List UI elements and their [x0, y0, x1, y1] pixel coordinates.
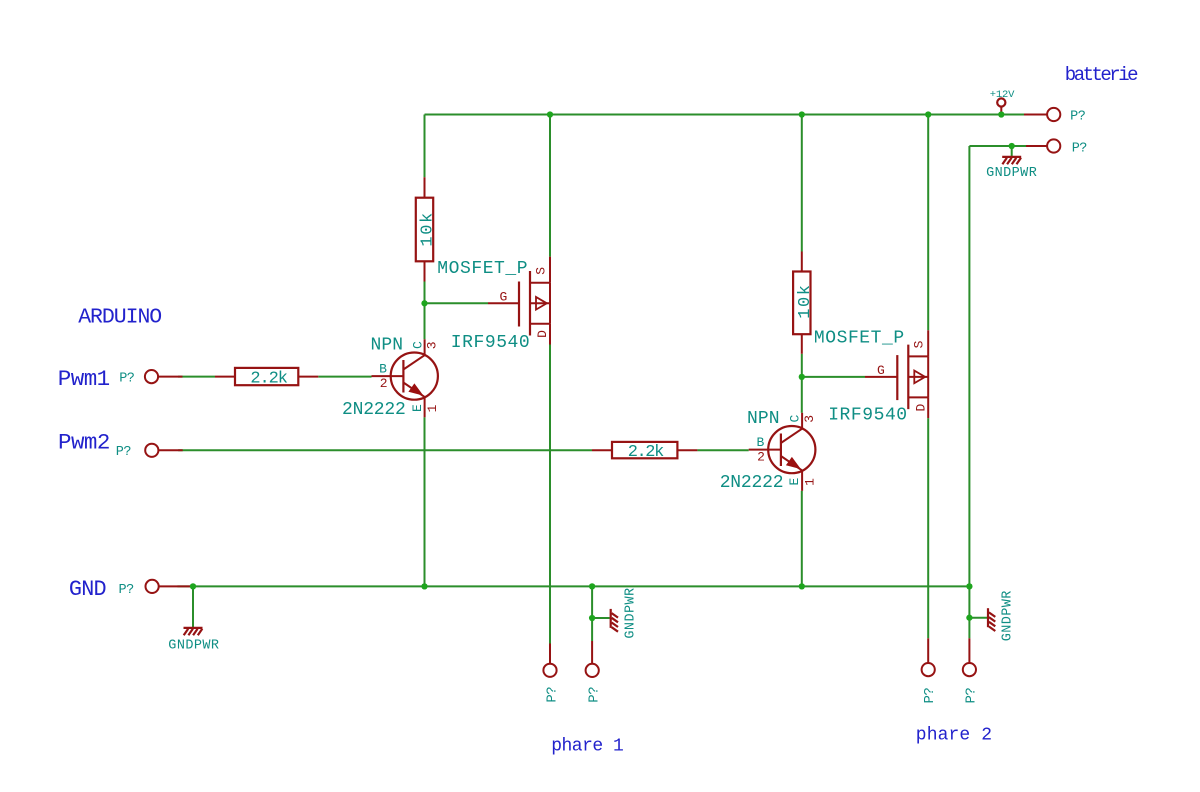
ground GNDPWR arduino label: [168, 639, 219, 654]
svg-text:P?: P?: [544, 687, 560, 703]
svg-text:1: 1: [802, 478, 817, 486]
junction phare1 gnd node: [589, 615, 595, 621]
svg-text:D: D: [914, 404, 929, 412]
wire gate node to M1 gate: [425, 302, 489, 304]
transistor Q2 pin name E: [787, 478, 802, 486]
connector P? phare2 lamp ref: [922, 688, 938, 704]
svg-text:B: B: [379, 362, 387, 377]
svg-text:2N2222: 2N2222: [342, 400, 406, 420]
svg-text:10k: 10k: [796, 283, 815, 318]
mosfet M2 pin name D: [914, 404, 929, 412]
transistor Q1 pin number 2: [380, 376, 388, 391]
wire phare1 GNDPWR stub: [592, 617, 610, 619]
svg-text:2: 2: [757, 449, 765, 464]
wire rail to M1 source: [549, 115, 551, 257]
junction top rail M2 source: [925, 111, 931, 117]
junction top rail +12V: [998, 111, 1004, 117]
resistor R2 value 10k: [796, 283, 815, 318]
svg-text:GNDPWR: GNDPWR: [1000, 590, 1015, 641]
svg-text:GND: GND: [69, 577, 106, 602]
connector P? Pwm2: [145, 444, 183, 457]
mosfet M1 ref IRF9540: [451, 333, 530, 353]
svg-text:2: 2: [380, 376, 388, 391]
net label GND: [69, 577, 106, 602]
resistor R1 pin 1: [424, 177, 426, 198]
svg-text:NPN: NPN: [747, 409, 780, 429]
junction GND rail battery return: [966, 583, 972, 589]
mosfet M1 pin name G: [500, 290, 508, 305]
resistor R4 value 2.2k: [628, 443, 664, 462]
resistor R1 10k body: [416, 198, 433, 262]
junction GND rail arduino: [190, 583, 196, 589]
wire M2 drain to phare2 pin: [927, 418, 929, 638]
svg-text:IRF9540: IRF9540: [828, 406, 907, 426]
svg-text:G: G: [500, 290, 508, 305]
resistor R1 value 10k: [419, 211, 438, 246]
svg-text:3: 3: [425, 341, 440, 349]
wire phare1 ground drop: [591, 586, 593, 641]
mosfet M1 pin name D: [535, 330, 550, 338]
svg-text:1: 1: [425, 404, 440, 412]
wire ARDUINO GNDPWR stem: [192, 586, 194, 627]
connector P? phare2 gnd: [963, 638, 976, 676]
wire phare2 GNDPWR stub: [969, 617, 987, 619]
svg-text:GNDPWR: GNDPWR: [986, 166, 1037, 181]
transistor Q1 pin name B: [379, 362, 387, 377]
transistor Q2 ref 2N2222: [720, 473, 784, 493]
connector P? GND: [146, 580, 194, 593]
ground GNDPWR phare1: [611, 609, 618, 632]
mosfet M2 IRF9540: [865, 330, 928, 418]
svg-text:E: E: [410, 404, 425, 412]
transistor Q1 ref 2N2222: [342, 400, 406, 420]
svg-text:GNDPWR: GNDPWR: [624, 587, 639, 638]
resistor R2 pin 2: [801, 334, 803, 354]
svg-text:S: S: [912, 340, 927, 348]
resistor R4 2.2k body: [612, 442, 677, 458]
svg-text:phare 1: phare 1: [551, 737, 623, 757]
mosfet M2 value MOSFET_P: [814, 328, 905, 348]
connector P? phare2 lamp: [922, 638, 935, 676]
svg-text:B: B: [757, 435, 765, 450]
connector P? battery plus ref: [1070, 110, 1086, 125]
svg-text:IRF9540: IRF9540: [451, 333, 530, 353]
wire battery negative horizontal: [969, 145, 1026, 147]
junction GND rail Q1 emitter: [421, 583, 427, 589]
transistor Q2 pin number 3: [802, 415, 817, 423]
wire phare2 ground drop: [968, 618, 970, 639]
wire Pwm2 segment b: [697, 449, 748, 451]
connector P? phare1 gnd: [586, 641, 599, 677]
resistor R4 pin 2: [677, 449, 697, 451]
ground GNDPWR phare2: [988, 608, 995, 631]
svg-text:ARDUINO: ARDUINO: [78, 306, 161, 330]
connector P? phare1 lamp: [543, 644, 556, 677]
transistor Q1 pin number 3: [425, 341, 440, 349]
mosfet M2 ref IRF9540: [828, 406, 907, 426]
mosfet M2 pin name G: [877, 363, 885, 378]
wire Pwm1 segment b: [318, 376, 371, 378]
net label ARDUINO: [78, 306, 161, 330]
transistor Q2 pin name B: [757, 435, 765, 450]
svg-text:2N2222: 2N2222: [720, 473, 784, 493]
junction phare2 gnd node: [966, 615, 972, 621]
transistor Q2 2N2222: [749, 413, 816, 491]
ground GNDPWR phare1 label: [624, 587, 639, 638]
ground GNDPWR phare2 label: [1000, 590, 1015, 641]
svg-text:P?: P?: [119, 583, 135, 598]
wire rail to M2 source: [927, 115, 929, 331]
net label phare 2: [916, 725, 992, 745]
wire gate node 2 to M2 gate: [802, 376, 865, 378]
svg-text:P?: P?: [116, 445, 132, 460]
svg-text:GNDPWR: GNDPWR: [168, 639, 219, 654]
svg-text:+12V: +12V: [990, 89, 1015, 101]
power symbol +12V: [997, 98, 1005, 114]
mosfet M1 IRF9540: [488, 257, 550, 345]
transistor Q1 pin name C: [410, 341, 425, 349]
svg-text:MOSFET_P: MOSFET_P: [437, 259, 528, 279]
junction battery minus: [1009, 143, 1015, 149]
junction GND rail Q2 emitter: [799, 583, 805, 589]
net label Pwm2: [58, 430, 110, 456]
resistor R2 pin 1: [801, 252, 803, 272]
svg-text:C: C: [410, 341, 425, 349]
wire rail to R1 top: [424, 115, 426, 178]
resistor R1 pin 2: [424, 261, 426, 281]
connector P? Pwm2 ref: [116, 445, 132, 460]
svg-text:P?: P?: [119, 371, 135, 386]
transistor Q2 pin number 2: [757, 449, 765, 464]
wire battery GNDPWR stem: [1011, 146, 1013, 156]
ground GNDPWR battery: [1002, 157, 1021, 164]
svg-text:P?: P?: [1070, 110, 1086, 125]
transistor Q1 2N2222: [372, 339, 438, 417]
svg-text:2.2k: 2.2k: [628, 443, 664, 462]
svg-text:10k: 10k: [419, 211, 438, 246]
wire R1 bottom to Q1 collector (through gate node): [424, 282, 426, 340]
ground GNDPWR arduino: [184, 628, 203, 635]
svg-text:D: D: [535, 330, 550, 338]
mosfet M2 pin name S: [912, 340, 927, 348]
wire Pwm1 segment a: [178, 376, 215, 378]
resistor R3 pin 1: [215, 376, 235, 378]
resistor R2 10k body: [793, 272, 810, 335]
transistor Q2 pin name C: [788, 415, 803, 423]
net label Pwm1: [58, 366, 110, 392]
svg-text:NPN: NPN: [371, 335, 404, 355]
wire Q1 emitter to GND rail: [424, 417, 426, 586]
mosfet M1 value MOSFET_P: [437, 259, 528, 279]
svg-text:MOSFET_P: MOSFET_P: [814, 328, 905, 348]
net label phare 1: [551, 737, 623, 757]
svg-text:P?: P?: [964, 688, 980, 704]
resistor R4 pin 1: [592, 449, 612, 451]
connector P? battery minus ref: [1072, 141, 1088, 156]
svg-text:P?: P?: [586, 687, 602, 703]
power symbol +12V label: [990, 89, 1015, 101]
svg-text:E: E: [787, 478, 802, 486]
svg-text:P?: P?: [1072, 141, 1088, 156]
wire M1 drain to phare1 pin: [549, 345, 551, 644]
junction gate node 2: [799, 374, 805, 380]
svg-text:batterie: batterie: [1065, 64, 1138, 86]
ground GNDPWR battery label: [986, 166, 1037, 181]
connector P? GND ref: [119, 583, 135, 598]
wire battery negative vertical down to GND rail: [968, 146, 970, 618]
wire Q2 emitter to GND rail: [801, 491, 803, 587]
transistor Q1 value NPN: [371, 335, 404, 355]
svg-text:G: G: [877, 363, 885, 378]
resistor R3 value 2.2k: [250, 369, 287, 388]
svg-text:S: S: [533, 267, 548, 275]
wire Pwm2 segment a: [178, 449, 592, 451]
wire R2 bottom to Q2 collector (through gate node): [801, 354, 803, 413]
wire GND rail horizontal: [177, 585, 969, 587]
resistor R3 2.2k body: [235, 368, 298, 385]
transistor Q2 value NPN: [747, 409, 780, 429]
transistor Q2 pin number 1: [802, 478, 817, 486]
svg-text:Pwm2: Pwm2: [58, 430, 110, 456]
transistor Q1 pin name E: [410, 404, 425, 412]
svg-text:2.2k: 2.2k: [250, 369, 287, 388]
junction GND rail phare1: [589, 583, 595, 589]
junction gate node 1: [421, 300, 427, 306]
junction top rail R2: [799, 111, 805, 117]
transistor Q1 pin number 1: [425, 404, 440, 412]
connector P? battery minus: [1026, 139, 1060, 152]
connector P? Pwm1 ref: [119, 371, 135, 386]
svg-text:Pwm1: Pwm1: [58, 366, 110, 392]
mosfet M1 pin name S: [533, 267, 548, 275]
svg-text:P?: P?: [922, 688, 938, 704]
svg-text:C: C: [788, 415, 803, 423]
svg-text:3: 3: [802, 415, 817, 423]
connector P? phare1 gnd ref: [586, 687, 602, 703]
wire rail to R2 top: [801, 115, 803, 252]
connector P? battery plus: [1024, 108, 1060, 121]
resistor R3 pin 2: [298, 376, 318, 378]
svg-text:phare 2: phare 2: [916, 725, 992, 745]
wire +12V top rail: [425, 114, 1025, 116]
connector P? Pwm1: [145, 370, 183, 383]
connector P? phare2 gnd ref: [964, 688, 980, 704]
connector P? phare1 lamp ref: [544, 687, 560, 703]
junction top rail M1 source: [547, 111, 553, 117]
net label batterie: [1065, 64, 1138, 86]
